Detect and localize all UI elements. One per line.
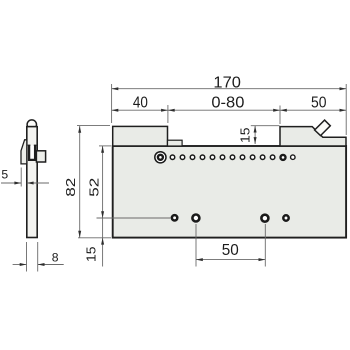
fork wall caps bbox=[28, 144, 31, 146]
side 5: dim line right tail bbox=[27, 182, 49, 184]
bottom 50 dim line bbox=[196, 259, 265, 261]
left wedge bbox=[21, 140, 27, 164]
side 5: dim line left part bbox=[1, 182, 21, 184]
holes line extension to hole1 bbox=[97, 217, 171, 219]
15 top up bbox=[254, 126, 257, 133]
50 top right bbox=[340, 109, 347, 112]
mounting hole 3 (socket right) bbox=[261, 215, 268, 222]
side 5 right arrow (points left, tip at 26.8) bbox=[27, 182, 34, 185]
bottom extension at plate bottom bbox=[78, 237, 111, 239]
clamp handle (rotated square) bbox=[315, 120, 331, 136]
row of adjustment holes bbox=[170, 155, 275, 160]
svg-text:82: 82 bbox=[63, 178, 78, 197]
side 5 left arrow (points right, tip at 21.2) bbox=[14, 182, 21, 185]
170 left bbox=[112, 87, 119, 90]
side 8: dim line right tail bbox=[38, 264, 64, 266]
svg-text:52: 52 bbox=[86, 178, 101, 197]
52 top extension bbox=[99, 145, 111, 147]
15 top: dim line bbox=[254, 126, 256, 144]
svg-text:0-80: 0-80 bbox=[211, 95, 244, 112]
side 8: extension left bbox=[26, 242, 28, 272]
extension 0-80/50 junction bbox=[279, 106, 281, 125]
0-80 right bbox=[273, 109, 280, 112]
row2 dim line bbox=[112, 109, 347, 111]
82 top extension bbox=[77, 124, 110, 126]
52 down bbox=[101, 211, 104, 218]
double circle (pivot) bbox=[155, 152, 166, 163]
extension 40/0-80 junction bbox=[167, 105, 169, 123]
15 top: extension horiz bbox=[251, 125, 280, 127]
left top block bbox=[113, 126, 168, 146]
main plate body bbox=[113, 146, 346, 238]
side 8: dim line left tail bbox=[13, 264, 27, 266]
svg-text:5: 5 bbox=[1, 170, 8, 182]
170 right bbox=[340, 87, 347, 90]
82 down bbox=[78, 231, 81, 238]
side 5: extension vertical bbox=[20, 168, 22, 187]
side bar body bbox=[27, 127, 37, 238]
0-80 left bbox=[168, 109, 175, 112]
bottom 50 left bbox=[196, 258, 203, 261]
svg-text:170: 170 bbox=[213, 75, 241, 92]
mounting hole 4 (small right) bbox=[283, 215, 288, 220]
svg-text:50: 50 bbox=[311, 95, 327, 112]
52 up bbox=[101, 146, 104, 153]
arrowheads bbox=[14, 87, 346, 266]
170 dim line bbox=[112, 88, 347, 90]
svg-text:15: 15 bbox=[239, 127, 253, 143]
side 8 right arrow (points left, tip at 37.7) bbox=[38, 263, 45, 266]
bold stop-pin circle bbox=[281, 155, 286, 160]
40 right bbox=[161, 109, 168, 112]
right top block with slant bbox=[280, 127, 346, 146]
bottom 50 right bbox=[259, 258, 266, 261]
15 top down bbox=[254, 137, 257, 144]
50 top left bbox=[280, 109, 287, 112]
82 up bbox=[78, 126, 81, 133]
52 dim line + 15 bottom continuation bbox=[102, 146, 104, 267]
svg-text:15: 15 bbox=[84, 246, 98, 262]
mounting hole 2 (socket left) bbox=[192, 215, 199, 222]
svg-text:8: 8 bbox=[52, 253, 59, 265]
side 8 left arrow (points right, tip at 26.5) bbox=[20, 263, 27, 266]
right tab bbox=[36, 151, 45, 162]
bottom 50: extension from hole2 bbox=[195, 224, 197, 267]
svg-text:40: 40 bbox=[133, 95, 148, 112]
step block right of left block bbox=[168, 140, 183, 146]
side 8: extension right bbox=[37, 242, 39, 272]
last small circle bbox=[291, 155, 296, 160]
svg-text:50: 50 bbox=[222, 242, 239, 259]
15 bottom up (below plate bottom) bbox=[101, 238, 104, 245]
mounting hole 1 (small left) bbox=[172, 215, 177, 220]
bottom 50: extension from hole3 bbox=[264, 224, 266, 267]
extension line left top bbox=[111, 84, 113, 123]
82 dim line bbox=[79, 126, 81, 238]
extension line right top bbox=[345, 84, 347, 135]
dome pin top bbox=[27, 120, 36, 129]
40 left bbox=[112, 109, 119, 112]
fork clamp U-piece bbox=[29, 145, 35, 160]
